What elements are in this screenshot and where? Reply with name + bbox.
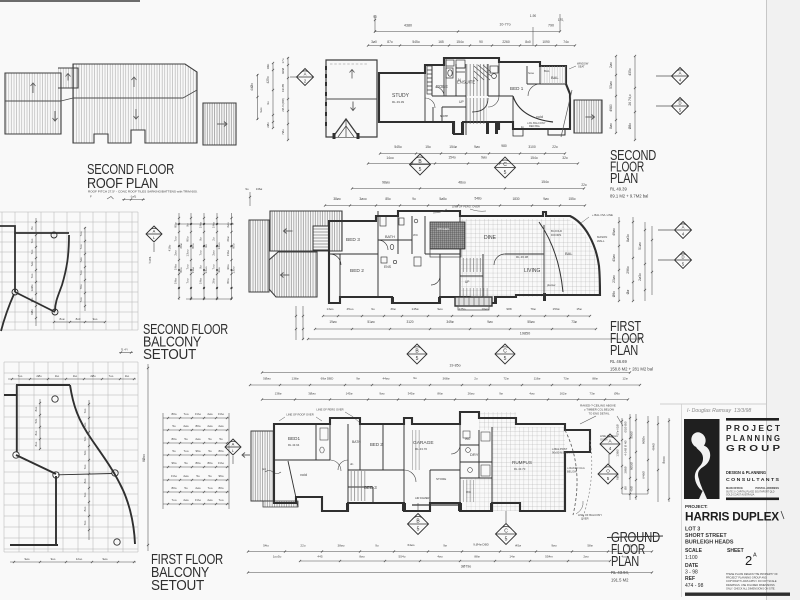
svg-text:1%o: 1%o — [226, 250, 230, 256]
svg-text:7oo: 7oo — [83, 520, 87, 525]
svg-text:2øo: 2øo — [183, 498, 189, 502]
svg-text:8ØØo: 8ØØo — [642, 436, 646, 445]
svg-text:7oo: 7oo — [79, 231, 83, 236]
svg-text:98øo: 98øo — [382, 181, 390, 185]
section diamond B5 gf — [408, 514, 429, 535]
kitchen — [430, 222, 465, 249]
svg-text:5o: 5o — [184, 461, 188, 465]
svg-text:96o: 96o — [218, 474, 223, 478]
svg-text:hose: hose — [528, 71, 535, 75]
svg-text:Ø8: Ø8 — [624, 486, 628, 490]
svg-text:69ø DBD: 69ø DBD — [321, 377, 334, 381]
svg-text:51øo: 51øo — [367, 320, 374, 324]
svg-text:1oo5o: 1oo5o — [273, 555, 282, 559]
svg-text:72ø: 72ø — [503, 377, 508, 381]
svg-text:86ø: 86ø — [437, 392, 442, 396]
svg-text:418o: 418o — [167, 244, 171, 251]
svg-text:96o: 96o — [171, 461, 176, 465]
svg-text:store: store — [440, 114, 448, 118]
svg-text:2øo: 2øo — [218, 424, 224, 428]
right dims first floor — [618, 217, 620, 301]
svg-text:1:100: 1:100 — [685, 555, 698, 561]
svg-text:SCALE: SCALE — [685, 548, 703, 554]
svg-text:1%o: 1%o — [218, 461, 224, 465]
svg-text:RL 49.39: RL 49.39 — [610, 187, 628, 192]
svg-text:SETOUT: SETOUT — [143, 347, 196, 363]
svg-text:288Ø: 288Ø — [624, 466, 628, 474]
svg-text:DRY: DRY — [470, 452, 479, 457]
right dims second floor — [615, 56, 617, 133]
svg-text:AIR DAMER: AIR DAMER — [415, 496, 430, 500]
svg-text:8oo: 8oo — [83, 478, 87, 483]
second floor right roof deck — [574, 100, 602, 133]
dims below first floor plan — [323, 315, 590, 317]
svg-text:5o: 5o — [184, 437, 188, 441]
svg-text:ROOF PITCH 27.5° - CONC ROOF T: ROOF PITCH 27.5° - CONC ROOF TILES SARKI… — [88, 190, 198, 194]
svg-text:1830: 1830 — [512, 197, 519, 201]
svg-text:554m: 554m — [545, 555, 553, 559]
svg-text:5o: 5o — [184, 486, 188, 490]
svg-text:7oo: 7oo — [212, 264, 216, 269]
svg-text:80o: 80o — [218, 486, 223, 490]
svg-text:72o: 72o — [83, 450, 87, 455]
svg-text:1%o: 1%o — [195, 498, 201, 502]
svg-text:2: 2 — [745, 553, 752, 568]
section diamond AL 2 — [225, 439, 241, 455]
svg-text:96o: 96o — [226, 264, 230, 269]
svg-text:8Ø2Ø: 8Ø2Ø — [630, 461, 634, 470]
svg-text:LOT 3: LOT 3 — [685, 527, 700, 533]
svg-text:4980: 4980 — [609, 104, 613, 112]
svg-text:138ø: 138ø — [291, 377, 298, 381]
svg-text:PLAN: PLAN — [610, 342, 638, 359]
svg-text:296o: 296o — [626, 266, 630, 274]
second floor outer walls — [379, 58, 570, 134]
svg-text:7oo: 7oo — [30, 297, 34, 302]
svg-text:9øo: 9øo — [487, 320, 493, 324]
svg-text:2Øo: 2Øo — [90, 374, 96, 378]
svg-text:9o: 9o — [199, 265, 203, 269]
svg-text:85o: 85o — [385, 197, 391, 201]
svg-text:554o: 554o — [399, 555, 406, 559]
svg-text:5o: 5o — [208, 474, 212, 478]
svg-text:HARRIS DUPLEX: HARRIS DUPLEX — [685, 512, 780, 524]
svg-text:9øo: 9øo — [481, 156, 487, 160]
svg-text:9o: 9o — [245, 187, 249, 191]
wall stubs below — [452, 122, 498, 134]
right dims ground floor — [621, 418, 623, 494]
svg-text:o RAKED CLG: o RAKED CLG — [567, 466, 585, 470]
wall stubs ff — [391, 293, 546, 304]
section diamond C5 gf — [496, 524, 517, 545]
ensuite fixtures — [427, 58, 498, 96]
ground floor outer walls — [274, 412, 590, 511]
svg-text:170,: 170, — [558, 18, 564, 22]
svg-text:8oø: 8oø — [60, 317, 65, 321]
svg-text:1%o: 1%o — [171, 474, 177, 478]
svg-text:PROJECT:: PROJECT: — [685, 504, 708, 509]
svg-text:9øo: 9øo — [259, 107, 263, 112]
PPG logo — [684, 419, 720, 499]
svg-text:WC: WC — [466, 490, 472, 494]
svg-text:1oØo: 1oØo — [30, 284, 34, 291]
svg-text:13øo: 13øo — [326, 307, 333, 311]
svg-text:8øo: 8øo — [359, 555, 365, 559]
svg-text:80o: 80o — [226, 278, 230, 283]
svg-text:SEAT: SEAT — [578, 65, 585, 69]
svg-text:8øo: 8øo — [609, 123, 613, 129]
svg-text:GARAGE: GARAGE — [413, 440, 434, 446]
svg-text:80o: 80o — [195, 461, 200, 465]
svg-text:4øo: 4øo — [437, 555, 443, 559]
svg-text:BATH: BATH — [352, 440, 361, 444]
svg-text:72o: 72o — [83, 436, 87, 441]
svg-text:2øo: 2øo — [609, 62, 613, 68]
svg-text:80o: 80o — [207, 461, 212, 465]
section diamond A4 — [656, 75, 672, 77]
svg-text:345ø: 345ø — [408, 392, 415, 396]
stair block ff left — [313, 226, 329, 250]
svg-text:53øo: 53øo — [609, 81, 613, 89]
svg-text:19850: 19850 — [520, 332, 531, 336]
section diamond C5 mid — [495, 344, 515, 364]
svg-text:5: 5 — [504, 170, 507, 176]
svg-text:5o: 5o — [208, 437, 212, 441]
svg-text:16øo: 16øo — [481, 307, 488, 311]
svg-text:C: C — [504, 529, 508, 535]
svg-text:38øo: 38øo — [333, 197, 340, 201]
svg-text:dn: dn — [350, 462, 354, 466]
svg-text:790: 790 — [548, 24, 554, 28]
svg-text:8oo: 8oo — [34, 406, 38, 411]
ground deck hatch — [251, 431, 274, 501]
svg-text:BED 2: BED 2 — [370, 442, 383, 447]
svg-text:REF: REF — [685, 576, 695, 582]
svg-text:7øo: 7øo — [30, 261, 34, 266]
svg-text:BED 3: BED 3 — [346, 237, 360, 243]
svg-text:void: void — [536, 115, 543, 119]
dims below ground floor — [248, 551, 652, 553]
svg-text:7oo: 7oo — [83, 464, 87, 469]
svg-text:9oo: 9oo — [51, 557, 56, 561]
svg-text:2øo: 2øo — [183, 474, 189, 478]
svg-text:435o: 435o — [628, 68, 632, 76]
svg-text:19-85o: 19-85o — [449, 364, 460, 368]
svg-text:P R O J E C T: P R O J E C T — [726, 424, 780, 433]
svg-text:ROBE: ROBE — [436, 84, 448, 89]
svg-text:8oo: 8oo — [83, 506, 87, 511]
svg-text:(st): (st) — [262, 467, 266, 471]
svg-text:155o: 155o — [568, 197, 575, 201]
svg-text:74o: 74o — [563, 40, 569, 44]
svg-text:26 74,o: 26 74,o — [628, 94, 632, 105]
svg-text:LIVING: LIVING — [524, 268, 541, 274]
svg-text:7oo: 7oo — [186, 264, 190, 269]
svg-text:484Ø: 484Ø — [652, 443, 656, 451]
svg-text:3ø0: 3ø0 — [371, 40, 377, 44]
svg-text:646Ø: 646Ø — [642, 471, 646, 479]
svg-text:C O N S U L T A N T S: C O N S U L T A N T S — [726, 477, 779, 482]
svg-text:45Ø: 45Ø — [630, 486, 634, 492]
section diamond A4 ff — [658, 229, 674, 231]
section diamond B5 mid — [407, 344, 427, 364]
svg-text:void: void — [300, 473, 307, 477]
svg-text:5: 5 — [607, 476, 610, 481]
svg-text:7oo: 7oo — [174, 236, 178, 241]
svg-text:445: 445 — [317, 555, 322, 559]
svg-text:planter: planter — [547, 283, 556, 287]
svg-text:7oo: 7oo — [109, 374, 114, 378]
svg-text:89.1 M2 + 9.7M2 bal: 89.1 M2 + 9.7M2 bal — [610, 194, 648, 199]
svg-text:9øo: 9øo — [379, 392, 385, 396]
scan mark top edge — [0, 0, 140, 2]
svg-text:2øo: 2øo — [207, 412, 213, 416]
svg-text:73ø: 73ø — [589, 392, 594, 396]
svg-text:PLAN: PLAN — [611, 553, 639, 570]
svg-text:1090: 1090 — [542, 40, 550, 44]
svg-text:11o: 11o — [73, 374, 78, 378]
svg-text:7oo: 7oo — [183, 449, 188, 453]
svg-text:368ø: 368ø — [442, 377, 449, 381]
svg-text:BATH: BATH — [385, 235, 395, 239]
svg-text:F: F — [90, 195, 92, 199]
svg-text:175o: 175o — [459, 307, 466, 311]
svg-text:BAL: BAL — [551, 75, 559, 80]
svg-text:D: D — [678, 101, 681, 106]
svg-text:43øo: 43øo — [612, 254, 616, 262]
svg-text:425o: 425o — [266, 76, 270, 83]
svg-text:1%o: 1%o — [218, 412, 224, 416]
section diamond MD gf — [598, 464, 618, 484]
svg-text:MAIN OFFICE: MAIN OFFICE — [726, 486, 743, 490]
svg-text:7oo: 7oo — [30, 273, 34, 278]
svg-text:9o: 9o — [186, 223, 190, 227]
svg-text:ENSUITE: ENSUITE — [457, 80, 475, 85]
svg-text:7oo: 7oo — [171, 498, 176, 502]
svg-text:5Øøo: 5Øøo — [263, 377, 271, 381]
svg-text:3øoo: 3øoo — [359, 197, 366, 201]
svg-text:7oo: 7oo — [207, 486, 212, 490]
svg-text:7oo: 7oo — [83, 492, 87, 497]
svg-text:1%o: 1%o — [199, 278, 203, 284]
svg-text:9o: 9o — [371, 307, 375, 311]
svg-text:TO ENG DETAIL: TO ENG DETAIL — [588, 412, 609, 416]
svg-text:1%o: 1%o — [212, 222, 216, 228]
first floor balcony setout grid — [4, 362, 149, 563]
svg-text:Øø: Øø — [626, 290, 630, 295]
svg-text:7oo: 7oo — [79, 297, 83, 302]
svg-text:2øo: 2øo — [212, 250, 216, 256]
section diamond A4 gf — [600, 434, 620, 454]
gable — [333, 119, 359, 137]
svg-text:2o: 2o — [212, 237, 216, 241]
svg-text:145ø: 145ø — [411, 307, 418, 311]
svg-text:9ø: 9ø — [499, 392, 503, 396]
svg-text:UP: UP — [465, 280, 469, 284]
svg-text:SETOUT: SETOUT — [151, 578, 204, 594]
svg-text:Ø9o: Ø9o — [612, 291, 616, 298]
svg-text:48oo: 48oo — [458, 181, 466, 185]
svg-text:ENS: ENS — [384, 265, 392, 269]
svg-text:WC: WC — [413, 233, 419, 237]
svg-text:2Ø-7o(8Ø): 2Ø-7o(8Ø) — [281, 98, 285, 111]
svg-text:4ØØ: 4ØØ — [281, 67, 285, 74]
svg-text:8ø3o: 8ø3o — [626, 234, 630, 242]
svg-text:Ø9o: Ø9o — [614, 392, 620, 396]
svg-text:545o: 545o — [394, 145, 402, 149]
svg-text:596Ø: 596Ø — [630, 431, 634, 439]
svg-text:88ø: 88ø — [592, 377, 597, 381]
svg-text:C: C — [503, 349, 507, 355]
svg-text:154ø: 154ø — [449, 145, 457, 149]
svg-text:2o: 2o — [474, 377, 478, 381]
svg-text:3100: 3100 — [528, 145, 536, 149]
svg-text:ONLY. CHECK ALL DIMENSIONS ON: ONLY. CHECK ALL DIMENSIONS ON SITE. — [726, 587, 776, 590]
svg-text:8o0: 8o0 — [525, 40, 531, 44]
svg-text:5o: 5o — [208, 449, 212, 453]
svg-text:DOORS: DOORS — [551, 233, 561, 237]
svg-text:POSTAL ADDRESS: POSTAL ADDRESS — [755, 486, 779, 490]
first floor balcony dims — [163, 412, 229, 509]
svg-text:191.5 M2: 191.5 M2 — [611, 578, 629, 583]
second floor balcony dims — [167, 213, 235, 300]
svg-text:5o: 5o — [172, 449, 176, 453]
svg-text:32o: 32o — [562, 156, 568, 160]
svg-text:80o: 80o — [195, 424, 200, 428]
svg-text:A: A — [679, 71, 682, 76]
svg-text:9o: 9o — [375, 544, 379, 548]
svg-text:165: 165 — [438, 40, 444, 44]
svg-text:80o: 80o — [174, 222, 178, 227]
svg-text:49øo: 49øo — [612, 228, 616, 236]
svg-text:154o: 154o — [541, 180, 549, 184]
svg-text:RL 49.39: RL 49.39 — [392, 100, 404, 104]
svg-text:BED 2: BED 2 — [350, 268, 364, 274]
svg-text:7oo: 7oo — [218, 498, 223, 502]
svg-text:WC: WC — [465, 437, 471, 441]
first floor left roof upper — [270, 211, 342, 251]
first floor left roof lower — [269, 252, 317, 297]
svg-text:2øo: 2øo — [195, 437, 201, 441]
svg-text:½18⇅: ½18⇅ — [148, 256, 152, 264]
svg-text:DRAWINGS. USE FIGURED DIMENSIO: DRAWINGS. USE FIGURED DIMENSIONS — [726, 584, 775, 587]
svg-text:80o: 80o — [171, 437, 176, 441]
svg-text:THESE PLANS REMAIN THE PROPERT: THESE PLANS REMAIN THE PROPERTY OF — [726, 573, 778, 576]
svg-text:7oo: 7oo — [199, 250, 203, 255]
svg-text:G R O U P: G R O U P — [726, 444, 781, 453]
svg-text:80o: 80o — [171, 486, 176, 490]
svg-text:8o0: 8o0 — [76, 317, 81, 321]
svg-text:2øo: 2øo — [583, 555, 589, 559]
svg-text:STUDY: STUDY — [392, 93, 410, 99]
svg-text:BAL: BAL — [544, 69, 550, 73]
svg-text:7oo: 7oo — [18, 374, 23, 378]
svg-text:1%o: 1%o — [174, 278, 178, 284]
svg-text:OVER: OVER — [581, 517, 589, 521]
svg-text:138ø: 138ø — [275, 392, 282, 396]
svg-text:BED1: BED1 — [288, 436, 300, 441]
svg-text:D: D — [681, 255, 684, 260]
svg-text:DESIGN & PLANNING: DESIGN & PLANNING — [726, 470, 767, 475]
svg-text:26ø: 26ø — [226, 236, 230, 241]
second floor roof plan — [5, 64, 236, 145]
svg-text:145ø: 145ø — [346, 392, 353, 396]
svg-text:SUITE 3 / CAPITAL PLACE SOUTH: SUITE 3 / CAPITAL PLACE SOUTHPORT QLD — [726, 491, 775, 494]
first floor left strip roof — [249, 220, 269, 292]
svg-text:545o: 545o — [412, 40, 420, 44]
svg-text:3 - 98: 3 - 98 — [685, 570, 698, 576]
svg-text:+ BAL OVL LINE: + BAL OVL LINE — [592, 213, 613, 217]
scan edge band right — [767, 0, 800, 600]
PPG text — [726, 418, 779, 421]
svg-text:1-90: 1-90 — [530, 14, 537, 18]
svg-text:9o: 9o — [413, 376, 417, 380]
svg-text:17ø 61Ø: 17ø 61Ø — [616, 424, 620, 436]
svg-text:58ø: 58ø — [587, 544, 592, 548]
svg-text:P L A N N I N G: P L A N N I N G — [726, 434, 780, 443]
garage door — [412, 504, 458, 506]
svg-text:3Øo: 3Øo — [266, 63, 270, 69]
svg-text:10-77o: 10-77o — [499, 23, 510, 27]
dims below second floor plan — [380, 153, 565, 155]
svg-text:2260: 2260 — [502, 40, 510, 44]
svg-text:2øo: 2øo — [207, 424, 213, 428]
svg-text:Ø8o: Ø8o — [628, 123, 632, 130]
svg-text:80o: 80o — [186, 236, 190, 241]
section diamond AL — [146, 226, 162, 242]
svg-text:9øo: 9øo — [437, 307, 443, 311]
svg-text:RL 46.69: RL 46.69 — [610, 359, 628, 364]
svg-text:DATE: DATE — [685, 563, 699, 569]
svg-text:13oo: 13oo — [186, 249, 190, 256]
svg-text:A: A — [753, 553, 757, 559]
svg-text:22o: 22o — [552, 145, 558, 149]
svg-text:WALL: WALL — [597, 239, 605, 243]
svg-text:55øo: 55øo — [527, 320, 534, 324]
svg-text:5o: 5o — [219, 437, 223, 441]
svg-text:87o: 87o — [387, 40, 393, 44]
svg-text:44Øo: 44Øo — [250, 83, 254, 91]
svg-text:DINE: DINE — [484, 235, 497, 241]
svg-text:2ø3o: 2ø3o — [638, 273, 642, 281]
svg-text:548o: 548o — [474, 197, 481, 201]
svg-text:2øo: 2øo — [207, 498, 213, 502]
svg-text:9o: 9o — [266, 101, 270, 105]
svg-text:5: 5 — [417, 527, 420, 533]
svg-text:7oo: 7oo — [79, 270, 83, 275]
svg-text:39ø: 39ø — [390, 307, 395, 311]
svg-text:O: O — [606, 469, 610, 474]
svg-text:23øo: 23øo — [612, 275, 616, 283]
svg-text:19øo: 19øo — [329, 320, 336, 324]
svg-text:SHEET: SHEET — [727, 548, 744, 554]
svg-text:LINE OF BALCONY: LINE OF BALCONY — [578, 513, 602, 517]
svg-text:90x90 M BELOW: 90x90 M BELOW — [552, 451, 573, 455]
svg-text:162ø: 162ø — [560, 392, 567, 396]
svg-text:LINE OF PERG. OVER: LINE OF PERG. OVER — [452, 205, 480, 209]
svg-text:54io: 54io — [263, 544, 269, 548]
svg-text:8oo: 8oo — [34, 441, 38, 446]
svg-text:RL 43.94: RL 43.94 — [288, 443, 300, 447]
svg-text:LINE OF PERG OVER: LINE OF PERG OVER — [316, 408, 343, 412]
svg-text:17o: 17o — [281, 58, 285, 63]
title block — [660, 404, 790, 597]
svg-text:RL 46.38: RL 46.38 — [516, 255, 528, 259]
svg-text:8ooo: 8ooo — [662, 456, 666, 463]
svg-text:2øo: 2øo — [195, 486, 201, 490]
svg-text:RUMPUS: RUMPUS — [512, 460, 532, 465]
svg-text:80o: 80o — [171, 412, 176, 416]
